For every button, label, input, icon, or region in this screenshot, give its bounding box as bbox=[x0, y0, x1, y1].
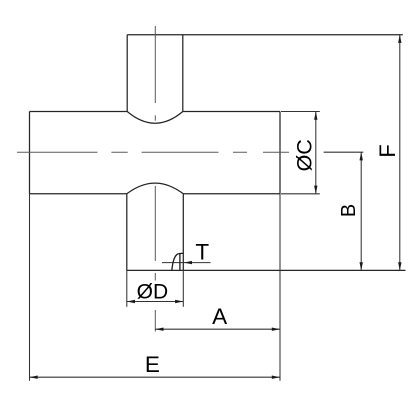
arrowhead A right bbox=[272, 328, 280, 331]
body top line right segment bbox=[183, 111, 280, 113]
arrowhead B top bbox=[360, 152, 363, 160]
svg-text:ØC: ØC bbox=[292, 139, 316, 171]
arrowhead OC bottom bbox=[314, 186, 317, 194]
bottom end face line (extended right as B/F reference) bbox=[127, 269, 406, 271]
extension line: bottom branch left wall to OD bbox=[126, 270, 128, 306]
dimension line OC bbox=[315, 112, 317, 194]
extension line: bottom branch right wall to OD bbox=[182, 270, 184, 306]
arrowhead OD left bbox=[127, 300, 135, 303]
wall section break curve bbox=[172, 253, 183, 270]
body right end face bbox=[279, 112, 281, 194]
arrowhead OC top bbox=[314, 112, 317, 120]
top face line (branch top end, extended right as F reference) bbox=[127, 34, 403, 36]
arrowhead E right bbox=[272, 376, 280, 379]
svg-text:E: E bbox=[145, 352, 160, 377]
body bottom line right segment bbox=[183, 193, 280, 195]
vertical centerline of branches bbox=[154, 26, 156, 332]
body left end face bbox=[29, 112, 31, 194]
arrowhead F top bbox=[398, 35, 401, 43]
inner wall line at broken-out section bbox=[179, 254, 181, 271]
body top line left segment bbox=[30, 111, 128, 113]
extension line: centerline to B bbox=[324, 151, 364, 153]
arrowhead E left bbox=[30, 376, 38, 379]
top branch saddle arc bbox=[127, 112, 183, 124]
dimension line OD bbox=[127, 301, 184, 303]
arrowhead B bottom bbox=[360, 262, 363, 270]
dimension line B bbox=[360, 152, 362, 270]
svg-text:ØD: ØD bbox=[137, 281, 169, 304]
svg-text:A: A bbox=[212, 304, 227, 329]
dimension line E bbox=[30, 376, 281, 378]
extension line: OC bottom bbox=[281, 193, 320, 195]
extension line: OC top bbox=[281, 111, 320, 113]
dimension line F bbox=[399, 35, 401, 271]
svg-text:B: B bbox=[338, 204, 360, 217]
top branch left wall bbox=[126, 35, 128, 112]
arrowhead A left bbox=[155, 328, 163, 331]
wall thickness callout line T bbox=[162, 262, 211, 264]
svg-text:T: T bbox=[195, 239, 209, 264]
bottom branch left wall bbox=[126, 194, 128, 271]
top branch right wall bbox=[182, 35, 184, 112]
bottom branch right wall bbox=[182, 194, 184, 271]
arrowhead T (points left at outer wall) bbox=[184, 261, 192, 264]
body bottom line left segment bbox=[30, 193, 127, 195]
extension line: body left edge down to E bbox=[29, 194, 31, 381]
dimension line A bbox=[155, 328, 280, 330]
bottom branch saddle arc bbox=[127, 183, 184, 194]
arrowhead F bottom bbox=[398, 262, 401, 270]
horizontal centerline of main body bbox=[17, 151, 289, 153]
extension line: body right edge down to A and E bbox=[279, 194, 281, 381]
arrowhead OD right bbox=[175, 300, 183, 303]
svg-text:F: F bbox=[375, 144, 400, 157]
